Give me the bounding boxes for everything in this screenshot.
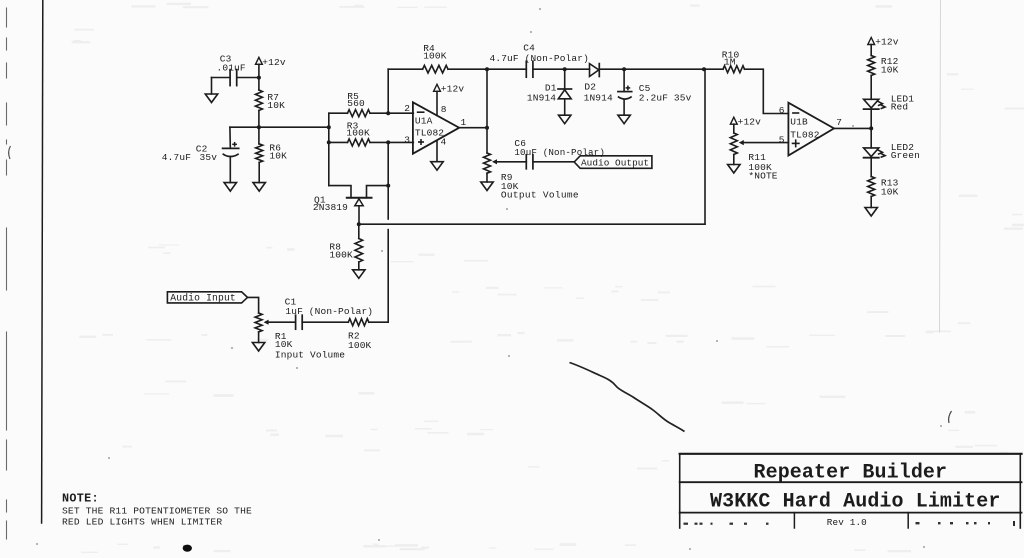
svg-text:7: 7 (836, 117, 842, 128)
svg-text:10K: 10K (269, 151, 287, 162)
title block frame (680, 453, 1022, 455)
transistor Q1 2N3819 (347, 197, 372, 199)
svg-text:SET THE R11 POTENTIOMETER SO T: SET THE R11 POTENTIOMETER SO THE (62, 506, 252, 517)
svg-text:D2: D2 (584, 81, 596, 92)
node: pin1 tee (485, 126, 489, 130)
svg-text:4.7uF: 4.7uF (162, 152, 191, 163)
svg-text:6: 6 (779, 105, 785, 116)
wire: U1B output (834, 127, 871, 129)
node: +12v/R7 junction (257, 76, 261, 80)
svg-text:Input Volume: Input Volume (275, 349, 345, 360)
power +12v (U1A pin 8) (434, 84, 441, 91)
left border line (42, 0, 43, 523)
svg-text:U1B: U1B (790, 117, 808, 128)
power +12v (R12) (868, 38, 875, 45)
power +12v (R11) (730, 117, 737, 124)
resistor R10 (723, 66, 745, 73)
node: Q1 source junction (386, 184, 390, 188)
svg-text:10K: 10K (881, 64, 899, 75)
svg-text:Rev 1.0: Rev 1.0 (827, 517, 867, 528)
svg-text:+12v: +12v (738, 116, 762, 127)
node: main line to node A (327, 125, 331, 129)
ground (R1) (252, 343, 264, 352)
node: D1 junction (563, 67, 567, 71)
resistor R4 (388, 68, 422, 70)
svg-text:4: 4 (441, 137, 447, 148)
svg-text:W3KKC Hard Audio Limiter: W3KKC Hard Audio Limiter (710, 491, 1000, 514)
ground (C3) (211, 78, 213, 95)
node: gate/R8 junction (357, 222, 361, 226)
capacitor C4 (525, 61, 527, 77)
svg-text:10K: 10K (267, 100, 285, 111)
ground (R6) (253, 183, 265, 192)
resistor R12 (868, 56, 875, 76)
svg-text:1N914: 1N914 (584, 93, 613, 104)
svg-text:100K: 100K (329, 250, 353, 261)
ink blob (183, 545, 192, 552)
ground (R9) (481, 182, 493, 191)
svg-text:1: 1 (461, 117, 467, 128)
svg-text:Green: Green (891, 150, 920, 161)
capacitor C6 (525, 155, 527, 169)
svg-text:+12v: +12v (875, 37, 899, 48)
svg-text:4.7uF (Non-Polar): 4.7uF (Non-Polar) (490, 53, 589, 64)
svg-text:8: 8 (441, 104, 447, 115)
wire: node A vertical (R5/R3 left) (328, 113, 330, 185)
wire: U1A output (459, 127, 487, 129)
node: output/R4/C4 junction (485, 67, 489, 71)
op-amp U1A TL082 (413, 102, 459, 153)
wire: pin3 node down to Q1 source (387, 142, 389, 185)
svg-text:35v: 35v (200, 152, 218, 163)
svg-text:10K: 10K (881, 186, 899, 197)
svg-text:RED LED LIGHTS WHEN LIMITER: RED LED LIGHTS WHEN LIMITER (62, 517, 222, 528)
ground (R13) (865, 208, 877, 217)
ground (U1A pin 4) (436, 141, 438, 162)
svg-text:C4: C4 (523, 42, 535, 53)
svg-text:Audio Input: Audio Input (170, 293, 236, 304)
ground (C2) (229, 157, 231, 183)
capacitor C2 (229, 127, 231, 147)
resistor R3 (329, 141, 348, 143)
capacitor C1 (295, 315, 297, 329)
resistor R8 (358, 224, 360, 238)
right paper edge faint line (940, 0, 941, 332)
svg-text:+12v: +12v (441, 84, 465, 95)
svg-text:1uF (Non-Polar): 1uF (Non-Polar) (285, 306, 373, 317)
svg-text:100K: 100K (348, 340, 372, 351)
capacitor C3 (212, 77, 231, 79)
resistor R6 (258, 127, 260, 144)
small pen mark right margin (949, 411, 952, 423)
svg-text:.01uF: .01uF (217, 63, 246, 74)
net tag Audio Input (167, 292, 247, 303)
cut-off bottom row text fragments (684, 523, 689, 525)
node: pin3/R3 junction (386, 140, 390, 144)
node: pin2/R5/R4 junction (386, 111, 390, 115)
wire: R4 feedback drop to pin 2 (387, 69, 389, 113)
node: gate feed junction (702, 67, 706, 71)
svg-text:560: 560 (347, 98, 365, 109)
svg-text:U1A: U1A (415, 116, 433, 127)
svg-text:Repeater Builder: Repeater Builder (754, 461, 948, 484)
wire: output node down to R9 (486, 69, 488, 153)
node: R3 tap on node A (327, 140, 331, 144)
ground (R11) (728, 165, 740, 174)
wire: input tag to R1 (248, 297, 259, 313)
left paper edge dashed line (6, 8, 8, 27)
svg-text:2.2uF 35v: 2.2uF 35v (639, 93, 692, 104)
svg-text:TL082: TL082 (790, 130, 819, 141)
ground (R8) (353, 270, 365, 279)
power +12v (C3/R7) (256, 57, 263, 64)
ground (D1) (559, 115, 571, 124)
svg-text:Audio Output: Audio Output (581, 158, 649, 169)
wire: gate control line (359, 223, 705, 225)
svg-text:Red: Red (891, 102, 909, 113)
capacitor C5 (623, 69, 625, 91)
wire: Q1 source node down to R2 (with crossover gap) (387, 186, 389, 219)
svg-text:1N914: 1N914 (527, 93, 556, 104)
svg-text:2: 2 (404, 103, 410, 114)
wire: node A down to Q1 drain (329, 186, 351, 198)
LED2 Green (870, 128, 872, 148)
node: C5 junction (622, 67, 626, 71)
resistor R7 (255, 90, 262, 111)
svg-text:3: 3 (404, 134, 410, 145)
net tag Audio Output (574, 156, 652, 169)
resistor R5 (329, 112, 348, 114)
LED1 Red (864, 99, 879, 108)
svg-text:Output Volume: Output Volume (501, 189, 579, 200)
node: R7/R6/C2 junction (257, 125, 261, 129)
wire: input bias node (230, 126, 329, 128)
scan noise speckles (544, 287, 563, 288)
pen scribble mark (570, 363, 685, 432)
ground (C5) (618, 115, 630, 124)
wire: top line to R10 (624, 68, 723, 70)
svg-text:5: 5 (779, 134, 785, 145)
potentiometer R11 (730, 133, 737, 155)
svg-text:100K: 100K (346, 127, 370, 138)
potentiometer R1 (255, 313, 262, 332)
svg-text:1M: 1M (724, 57, 736, 68)
resistor R2 (348, 319, 369, 326)
node: LED junction (869, 126, 873, 130)
op-amp U1B TL082 (788, 103, 834, 156)
diode D2 1N914 (590, 64, 599, 77)
resistor R13 (868, 177, 875, 197)
diode D1 1N914 (564, 69, 566, 89)
svg-text:*NOTE: *NOTE (748, 171, 777, 182)
svg-text:NOTE:: NOTE: (62, 491, 99, 505)
svg-text:2N3819: 2N3819 (313, 202, 348, 213)
svg-text:100K: 100K (423, 50, 447, 61)
svg-text:+12v: +12v (262, 57, 286, 68)
potentiometer R9 (484, 153, 491, 173)
